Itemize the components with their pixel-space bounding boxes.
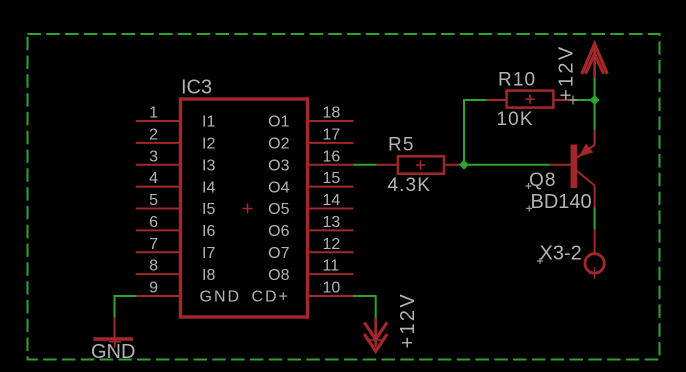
pin 15 (308, 170, 354, 187)
svg-text:O5: O5 (268, 201, 289, 218)
supply +12V top (569, 44, 608, 105)
svg-text:12: 12 (323, 236, 341, 253)
svg-text:O4: O4 (268, 179, 289, 196)
resistor R5 (376, 156, 460, 173)
svg-text:13: 13 (323, 214, 341, 231)
svg-text:Q8: Q8 (529, 170, 557, 191)
pin 8 (136, 258, 181, 275)
svg-text:2: 2 (149, 126, 158, 143)
svg-text:I1: I1 (202, 114, 215, 131)
ground GND (94, 317, 134, 347)
wire pin9 to GND (115, 296, 137, 318)
wire pin10 to +12V bottom (354, 296, 376, 318)
wire junction A to R10 (464, 100, 487, 165)
svg-text:GND: GND (91, 341, 135, 363)
svg-text:14: 14 (323, 192, 341, 209)
pin 4 (136, 170, 181, 187)
svg-text:I3: I3 (202, 157, 215, 174)
pin 18 (308, 105, 354, 122)
svg-text:11: 11 (323, 258, 340, 275)
svg-text:1: 1 (149, 105, 158, 122)
label BD140 (526, 191, 591, 213)
pin 9 (137, 280, 181, 297)
connector pin X3-2 (585, 230, 604, 279)
pin 11 (308, 258, 354, 275)
pin 14 (308, 192, 354, 209)
pin 17 (308, 126, 354, 143)
svg-text:CD+: CD+ (252, 289, 290, 306)
svg-text:6: 6 (149, 214, 158, 231)
svg-text:I2: I2 (202, 136, 215, 153)
svg-text:+12V: +12V (397, 292, 419, 348)
svg-text:O3: O3 (268, 157, 289, 174)
svg-text:I4: I4 (202, 179, 215, 196)
svg-text:8: 8 (149, 258, 158, 275)
pin 5 (136, 192, 181, 209)
wire Q8 collector to X3-2 (594, 208, 596, 230)
svg-text:O8: O8 (268, 267, 289, 284)
svg-text:+12V: +12V (556, 45, 578, 101)
svg-text:I7: I7 (202, 245, 215, 262)
svg-text:R5: R5 (388, 135, 415, 156)
pin 3 (136, 148, 181, 165)
pin 16 (308, 148, 354, 165)
svg-text:O1: O1 (268, 114, 289, 131)
svg-text:4: 4 (149, 170, 158, 187)
pin 1 (136, 105, 181, 122)
svg-text:R10: R10 (498, 70, 536, 91)
svg-text:X3-2: X3-2 (540, 243, 582, 265)
wire R5 to Q8 base (460, 164, 550, 166)
svg-text:GND: GND (200, 289, 242, 306)
svg-text:9: 9 (149, 280, 158, 297)
wire junction B up to supply (594, 78, 596, 100)
svg-text:5: 5 (149, 192, 158, 209)
wire junction B to Q8 emitter (594, 100, 596, 141)
svg-text:10K: 10K (497, 109, 534, 130)
svg-text:IC3: IC3 (181, 77, 212, 99)
label Q8 (526, 170, 557, 191)
pin 13 (308, 214, 354, 231)
supply +12V bottom (364, 318, 387, 351)
svg-text:I8: I8 (202, 267, 215, 284)
svg-text:O6: O6 (268, 223, 289, 240)
wire R10 to junction B (573, 99, 595, 101)
junction A (459, 160, 469, 170)
svg-text:I6: I6 (202, 223, 215, 240)
svg-text:15: 15 (323, 170, 341, 187)
transistor Q8 (550, 130, 595, 208)
svg-text:18: 18 (323, 105, 341, 122)
svg-text:O2: O2 (268, 136, 289, 153)
svg-text:7: 7 (149, 236, 158, 253)
pin 6 (136, 214, 181, 231)
wire pin16 to R5 (354, 164, 378, 166)
IC3 body (181, 99, 308, 317)
pin 10 (308, 280, 354, 297)
svg-text:BD140: BD140 (531, 191, 592, 213)
junction B (590, 95, 600, 105)
IC3 origin cross (243, 204, 253, 214)
pin 2 (136, 126, 181, 143)
resistor R10 (487, 91, 573, 108)
svg-text:I5: I5 (202, 201, 215, 218)
svg-text:O7: O7 (268, 245, 289, 262)
svg-text:17: 17 (323, 126, 341, 143)
svg-text:4.3K: 4.3K (388, 175, 432, 196)
label X3-2 (537, 243, 582, 265)
pin 12 (308, 236, 354, 253)
svg-text:3: 3 (149, 148, 158, 165)
svg-text:16: 16 (323, 148, 341, 165)
pin 7 (136, 236, 181, 253)
svg-text:10: 10 (323, 280, 341, 297)
